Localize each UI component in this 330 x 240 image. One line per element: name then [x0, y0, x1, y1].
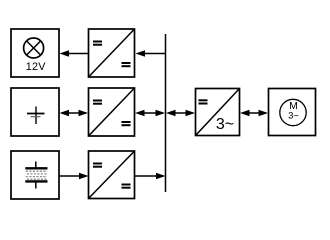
wire: battery to converter U3 (arrow right): [59, 173, 89, 180]
dc/dc converter U3: [89, 151, 135, 199]
inverter U4 (dc to 3-phase ac): [196, 89, 240, 136]
capacitor box: [11, 88, 59, 136]
motor M1 (3-phase): [280, 99, 306, 125]
svg-text:3~: 3~: [288, 111, 299, 122]
dc bus: [165, 34, 167, 192]
wire: converter U2 to bus (double arrow): [135, 110, 165, 117]
capacitor symbol: [27, 107, 45, 125]
dc/dc converter U1: [89, 29, 135, 77]
wire: bus to converter U1 (arrow left): [136, 50, 166, 57]
dc/dc converter U2: [89, 88, 135, 136]
lamp box (12V load): [11, 29, 59, 77]
wire: bus to inverter (double arrow): [166, 110, 195, 117]
battery symbol: [25, 162, 47, 189]
wire: converter U1 to lamp (arrow left): [60, 50, 89, 57]
svg-text:3~: 3~: [216, 116, 234, 133]
wire: inverter to motor (double arrow): [240, 110, 268, 117]
svg-text:12V: 12V: [26, 61, 46, 73]
battery box: [11, 151, 59, 199]
lamp symbol: [24, 38, 44, 58]
label 12V: [26, 61, 46, 73]
wire: converter U3 to bus (arrow right): [135, 173, 166, 180]
wire: capacitor to converter U2 (double arrow): [60, 110, 89, 117]
motor box: [269, 89, 316, 136]
